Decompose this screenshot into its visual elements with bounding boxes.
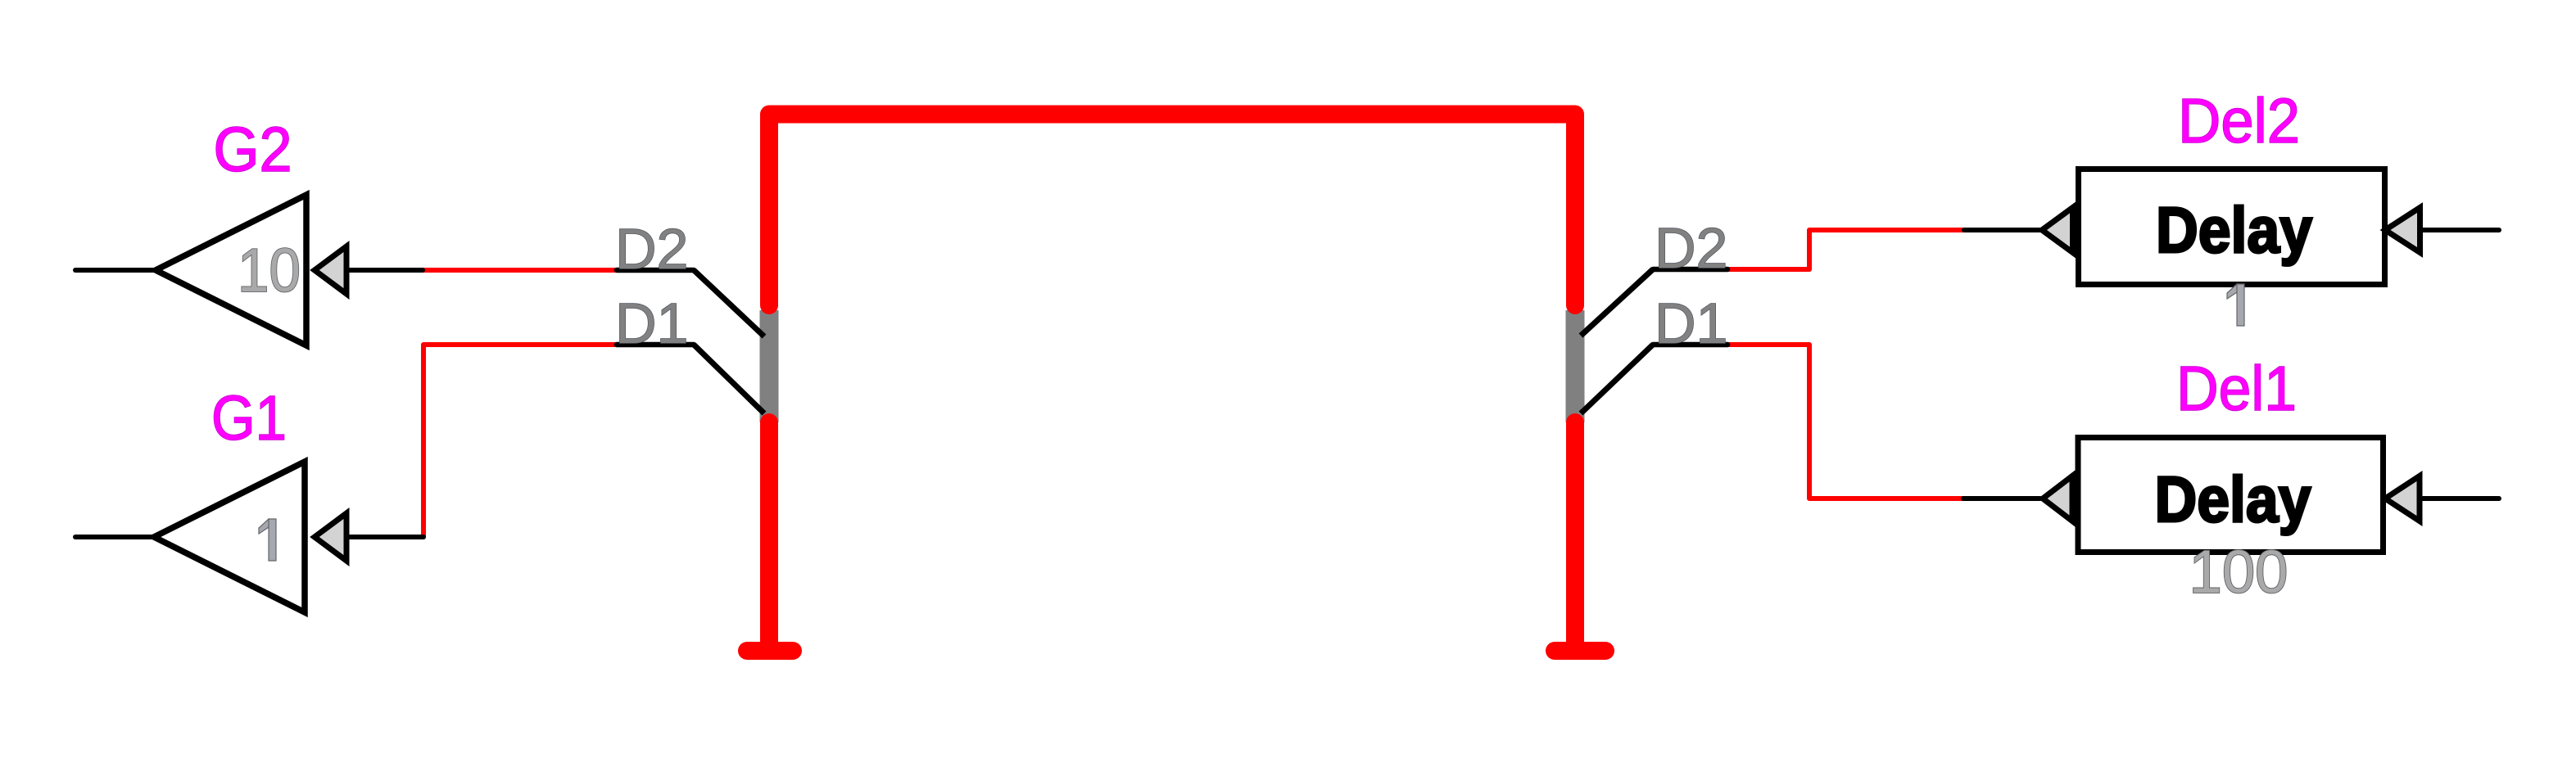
transmission line bus: left vertical lower segment bbox=[760, 422, 778, 651]
wire: D2 tap diagonal (right bar) bbox=[1581, 269, 1653, 336]
Delay1 right input port arrowhead bbox=[2385, 476, 2420, 521]
label Del1 bbox=[2176, 354, 2297, 424]
node label D2 (right) bbox=[1655, 216, 1727, 280]
svg-text:D2: D2 bbox=[1655, 216, 1727, 280]
node label D1 (left) bbox=[615, 291, 688, 355]
gray tap segment on right transmission-line bar bbox=[1566, 310, 1585, 422]
wire: black underline segment below right D2 label bbox=[1653, 267, 1727, 273]
wire: black underline segment below left D1 label bbox=[617, 342, 694, 348]
svg-text:D2: D2 bbox=[615, 217, 688, 281]
delay block Del1 "Delay" text bbox=[2155, 462, 2311, 535]
wire: G2 input black segment bbox=[346, 268, 423, 273]
Delay2 right input port arrowhead bbox=[2385, 208, 2420, 253]
gain G1 value 1 bbox=[259, 519, 276, 561]
wire: Delay1 right input line bbox=[2423, 496, 2499, 501]
wire: D2 tap diagonal (left bar) bbox=[694, 270, 764, 336]
wire: G1 output line bbox=[75, 535, 154, 539]
svg-text:100: 100 bbox=[2189, 538, 2289, 606]
Delay2 left input port arrowhead bbox=[2042, 208, 2073, 253]
svg-text:Delay: Delay bbox=[2156, 193, 2312, 266]
wire: Delay2 right input line bbox=[2423, 228, 2499, 232]
G1 input port arrowhead bbox=[315, 513, 346, 561]
delay block Del2 rectangle bbox=[2079, 169, 2385, 285]
transmission line bus: top U (left vertical upper, top bar, right vertical upper), red bbox=[769, 115, 1575, 306]
delay block Del1 rectangle bbox=[2078, 438, 2384, 553]
svg-text:10: 10 bbox=[238, 236, 301, 305]
wire: red net from right D2 tap to Delay2 input bbox=[1727, 230, 1964, 269]
delay block Del2 "Delay" text bbox=[2156, 193, 2312, 266]
svg-text:G1: G1 bbox=[211, 383, 287, 453]
wire: G2 output line bbox=[75, 268, 156, 273]
gray tap segment on left transmission-line bar bbox=[760, 310, 779, 422]
wire: black underline segment below left D2 label bbox=[617, 268, 694, 273]
svg-text:G2: G2 bbox=[214, 115, 292, 185]
wire: G1 input black segment bbox=[346, 535, 423, 539]
wire: D1 tap diagonal (right bar) bbox=[1581, 345, 1653, 413]
label G2 bbox=[214, 115, 292, 185]
node label D1 (right) bbox=[1655, 291, 1727, 355]
svg-text:D1: D1 bbox=[615, 291, 688, 355]
wire: red net from G1 input up and right to left D1 tap bbox=[423, 345, 618, 537]
node label D2 (left) bbox=[615, 217, 688, 281]
termination cap bar at bottom of left bar bbox=[747, 642, 793, 660]
Delay1 left input port arrowhead bbox=[2043, 476, 2072, 521]
wire: black segment into Delay2 left input bbox=[1964, 228, 2040, 232]
svg-text:Del1: Del1 bbox=[2176, 354, 2297, 424]
svg-text:Del2: Del2 bbox=[2178, 86, 2300, 156]
Del1 value 100 bbox=[2189, 538, 2289, 606]
wire: red net from G2 input to left D2 tap bbox=[422, 268, 618, 273]
wire: D1 tap diagonal (left bar) bbox=[694, 345, 764, 413]
svg-text:D1: D1 bbox=[1655, 291, 1727, 355]
svg-text:Delay: Delay bbox=[2155, 462, 2311, 535]
label Del2 bbox=[2178, 86, 2300, 156]
transmission line bus: right vertical lower segment bbox=[1566, 422, 1584, 651]
wire: black segment into Delay1 left input bbox=[1963, 496, 2040, 501]
termination cap bar at bottom of right bar bbox=[1555, 642, 1605, 660]
gain G2 value 10 bbox=[238, 236, 301, 305]
gain amplifier G2 triangle bbox=[156, 195, 306, 345]
Del2 value 1 bbox=[2227, 284, 2244, 326]
wire: black underline segment below right D1 label bbox=[1653, 342, 1727, 348]
G2 input port arrowhead bbox=[315, 246, 346, 294]
gain amplifier G1 triangle bbox=[154, 462, 305, 612]
label G1 bbox=[211, 383, 287, 453]
wire: red net from right D1 tap down to Delay1 input bbox=[1727, 345, 1963, 499]
